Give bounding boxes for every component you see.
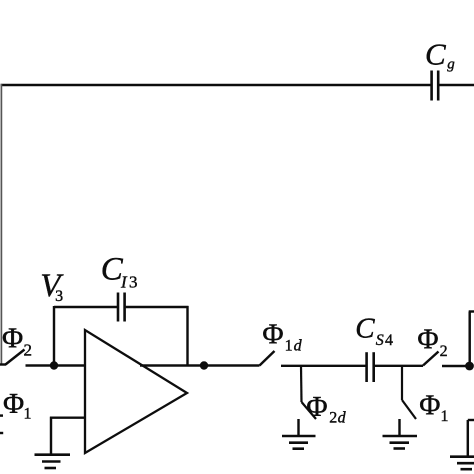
svg-text:g: g <box>447 57 455 73</box>
wire bottom right vertical <box>467 420 469 456</box>
svg-text:d: d <box>338 410 347 427</box>
switch PHI2d contact stub <box>297 419 299 436</box>
svg-text:C: C <box>425 37 446 72</box>
svg-text:Φ: Φ <box>417 324 438 356</box>
wire feedback top left <box>54 306 117 308</box>
label PHI2 left <box>2 323 32 360</box>
capacitor CS4 <box>367 352 374 382</box>
svg-text:Φ: Φ <box>3 388 24 420</box>
svg-text:S: S <box>376 332 384 349</box>
svg-text:I: I <box>120 273 128 292</box>
switch PHI1 right blade <box>402 400 416 419</box>
label PHI1 left <box>3 388 32 423</box>
svg-text:1: 1 <box>24 406 32 423</box>
switch PHI2d blade <box>302 402 317 419</box>
stub cropped switch left contact <box>0 432 3 434</box>
capacitor CI3 <box>118 293 125 322</box>
wire CS4 to PHI2 right <box>375 365 423 367</box>
node C right <box>465 362 474 371</box>
wire feedback right vertical <box>186 306 188 366</box>
wire feedback top right <box>126 306 189 308</box>
wire right top stub <box>469 310 474 312</box>
label PHI1 right <box>419 390 448 426</box>
label PHI2 right <box>417 324 447 360</box>
wire right vertical <box>468 312 470 367</box>
switch PHI2 right blade <box>423 352 439 366</box>
label CS4 <box>355 313 393 349</box>
ground under opamp <box>35 455 71 468</box>
svg-text:3: 3 <box>55 288 63 305</box>
label V3 <box>40 268 64 305</box>
svg-text:4: 4 <box>385 332 393 349</box>
ground under PHI2d <box>282 436 316 449</box>
wire branch down PHI1 right <box>401 366 403 401</box>
switch PHI1 right contact stub <box>398 419 400 436</box>
svg-text:Φ: Φ <box>306 391 327 423</box>
svg-text:2: 2 <box>24 340 33 359</box>
label CI3 <box>101 252 138 292</box>
ground bottom right <box>450 457 474 470</box>
switch PHI2 left: blade <box>6 350 25 365</box>
svg-text:C: C <box>355 313 375 345</box>
op-amp U1 <box>85 330 187 453</box>
wire opamp lower input <box>50 416 86 418</box>
capacitor Cg <box>432 71 439 101</box>
wire feedback left vertical <box>53 306 55 366</box>
wire branch down PHI2d <box>300 366 303 403</box>
wire left vertical <box>0 84 2 364</box>
wire opamp output <box>140 364 260 366</box>
svg-text:2: 2 <box>329 410 337 427</box>
svg-text:1: 1 <box>441 408 449 425</box>
node A input <box>50 361 58 369</box>
ground under PHI1 right <box>383 436 418 449</box>
svg-text:3: 3 <box>129 273 138 292</box>
svg-text:Φ: Φ <box>419 390 440 422</box>
stub cropped switch left blade tip <box>0 414 3 416</box>
label PHI1d <box>262 319 302 355</box>
label Cg <box>425 37 455 73</box>
label PHI2d <box>306 391 346 427</box>
node B output <box>200 361 208 369</box>
svg-text:2: 2 <box>440 343 448 360</box>
wire PHI2 right to node C <box>442 365 470 367</box>
switch PHI2 left: pole stub <box>0 363 6 365</box>
svg-text:d: d <box>294 338 303 355</box>
wire lower input down <box>50 417 52 454</box>
wire input to opamp <box>26 364 86 366</box>
wire bottom right stub <box>468 419 474 421</box>
svg-text:Φ: Φ <box>2 323 23 355</box>
switch PHI1d blade <box>260 351 275 366</box>
wire PHI1d to CS4 <box>281 365 366 367</box>
wire top horizontal right of Cg <box>439 84 474 87</box>
wire top horizontal left of Cg <box>1 84 432 87</box>
svg-text:Φ: Φ <box>262 319 283 351</box>
svg-text:1: 1 <box>285 338 293 355</box>
